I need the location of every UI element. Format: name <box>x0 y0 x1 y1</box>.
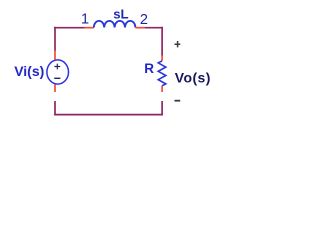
wire left vertical upper (maroon) <box>54 27 56 51</box>
wire bottom horizontal <box>54 114 163 116</box>
svg-text:2: 2 <box>140 12 148 28</box>
wire right fade segment <box>161 92 163 101</box>
wire red stub right of inductor <box>135 27 144 29</box>
svg-text:1: 1 <box>81 12 89 28</box>
plus sign at Vo <box>175 41 181 47</box>
wire red above source <box>54 51 56 60</box>
svg-text:Vo(s): Vo(s) <box>175 70 211 86</box>
voltage source V1 circle <box>47 60 69 84</box>
minus sign inside source <box>54 77 60 79</box>
wire top-right horizontal <box>145 27 163 29</box>
wire red above resistor <box>161 56 163 61</box>
wire red below resistor <box>161 86 163 92</box>
wire left vertical lower (maroon) <box>54 101 56 115</box>
inductor sL (4 arcs) <box>94 21 136 28</box>
wire red below source <box>54 84 56 92</box>
svg-text:R: R <box>144 61 154 76</box>
wire right vertical upper (maroon) <box>161 27 163 56</box>
plus sign inside source <box>54 64 60 70</box>
resistor R zigzag <box>158 61 166 86</box>
wire right vertical lower (maroon) <box>161 101 163 115</box>
wire left fade segment <box>54 92 56 101</box>
wire top-left horizontal (node 1 side) <box>54 27 84 29</box>
svg-text:Vi(s): Vi(s) <box>14 63 44 79</box>
svg-text:sL: sL <box>113 6 128 21</box>
wire red stub left of inductor <box>85 27 94 29</box>
minus sign at Vo <box>175 100 181 102</box>
